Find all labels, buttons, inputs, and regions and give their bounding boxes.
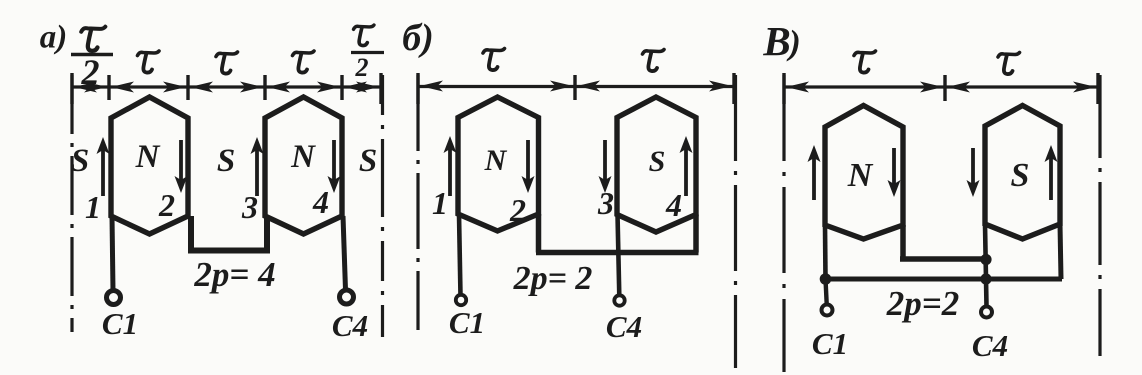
svg-text:3: 3 [241,189,258,225]
svg-text:S: S [71,143,89,179]
svg-text:S: S [649,145,666,178]
svg-text:2p=2: 2p=2 [886,284,959,323]
svg-text:4: 4 [312,184,329,220]
svg-text:C4: C4 [332,308,368,343]
svg-text:C4: C4 [972,328,1008,363]
svg-text:2: 2 [81,52,100,92]
svg-text:2: 2 [509,192,526,228]
svg-text:C1: C1 [449,305,485,340]
svg-text:C1: C1 [812,326,848,361]
svg-text:а): а) [40,20,68,56]
svg-text:S: S [1011,157,1030,194]
svg-text:N: N [135,139,161,175]
svg-text:N: N [484,144,508,177]
svg-text:2: 2 [158,187,175,223]
svg-text:2p= 4: 2p= 4 [193,255,275,294]
svg-text:N: N [290,139,316,175]
svg-text:б): б) [402,17,434,59]
svg-text:1: 1 [85,189,101,225]
svg-text:S: S [359,143,377,179]
svg-text:3: 3 [597,185,614,221]
svg-text:B: B [762,18,790,64]
svg-text:N: N [847,157,874,194]
svg-text:2p= 2: 2p= 2 [513,260,593,297]
svg-text:1: 1 [432,185,448,221]
svg-text:4: 4 [665,187,682,223]
svg-text:C1: C1 [102,306,138,341]
svg-text:2: 2 [355,53,369,82]
svg-text:): ) [786,23,801,62]
svg-text:C4: C4 [606,309,642,344]
svg-text:S: S [217,143,235,179]
